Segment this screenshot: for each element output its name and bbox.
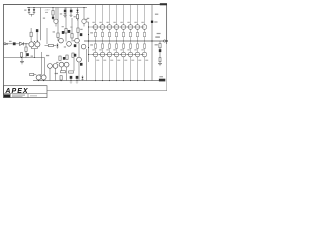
wire zobel top [159,41,161,44]
node rail j2 [88,47,89,48]
wire vertical x58 [57,8,59,34]
transistor Q26 output NPN [128,25,133,30]
node Q6 emitter [43,80,44,81]
label IN [9,41,12,42]
wire ground return [4,57,45,59]
wire Q32 collector [102,57,103,81]
wire Q34 collector [116,57,117,81]
label C3 [74,16,76,17]
resistor R6 [76,15,78,19]
wire R45 to out bus [123,37,124,42]
resistor R57 emitter [136,41,138,52]
wire Q22 collector [102,5,104,25]
transistor Q37 output PNP [135,52,140,57]
transistor Q4 [82,7,86,27]
wire R47 to out bus [137,37,138,42]
inductor L1 [159,52,161,63]
ground symbol GND2 [158,63,162,65]
label Q33 [106,49,108,50]
title cell right text [30,95,37,96]
wire R42 to out bus [102,37,103,42]
wire -V bus [33,80,160,82]
label Q8 [64,46,66,47]
wire diode join [28,7,34,17]
transistor Q6 [41,75,46,80]
wire R11 down [65,33,67,42]
transistor Q28 output NPN [142,25,147,30]
wire Q5 Q6 link [39,74,45,76]
title cell text line2 [12,95,23,98]
label Q9 [73,40,75,41]
title block vdiv2 [27,94,29,98]
resistor R16 [66,55,68,59]
resistor R11 [65,29,67,34]
transistor Q13 [59,62,64,67]
diode D6 [82,76,84,81]
title cell text line1 [12,94,25,97]
wire Q27 emitter [137,29,139,32]
capacitor C7 [68,30,71,33]
wire Q23 emitter [109,29,111,32]
wire drv down x74 [73,58,75,71]
title block vdiv1 [10,94,12,98]
transistor Q21 output NPN [93,25,98,30]
transistor Q12 [53,64,58,69]
label Q32 [99,49,101,50]
resistor R12 [71,18,73,42]
wire Q21 emitter [95,29,97,32]
wire Q38 collector [144,57,145,81]
label Q26 [127,22,129,23]
label -55V [55,73,58,74]
border frame left [3,4,5,98]
resistor R14 horizontal [45,44,57,46]
label part number col 8 [145,60,148,61]
label F1 [154,21,157,22]
label C7 [70,27,72,28]
wire V1 vertical [40,8,42,41]
wire feedback vertical 2 [44,58,46,75]
wire Q26 collector [130,5,132,25]
wire feedback vertical 1 [41,52,43,75]
capacitor C1b symbol [20,42,24,45]
wire drv down x50 [49,68,51,80]
revision block [160,3,167,5]
border frame right [166,4,168,91]
wire R3 to Q3 [52,15,54,20]
label part number col 5 [124,60,127,61]
wire Q28 collector [144,5,146,25]
wire drv down x79 [78,43,80,81]
transistor Q9 [75,38,80,43]
capacitor C13 [74,54,77,57]
transistor Q1 [29,42,34,47]
resistor R44 emitter [115,32,117,36]
resistor R53 emitter [108,41,110,52]
label bias top [84,19,87,20]
label part number col 7 [138,60,141,61]
wire base bus bottom bank [89,54,145,56]
transistor Q14 [64,62,69,67]
wire drv down x61 [61,67,63,71]
border frame bottom [47,90,167,92]
resistor R47 emitter [136,32,138,36]
wire Q22 emitter [102,29,104,32]
resistor R54 emitter [115,41,117,52]
label Q37 [134,49,136,50]
wire Q31 collector [95,57,96,81]
node Q5 emitter [38,80,39,81]
wire drop R3 [53,7,54,11]
diode D2 [33,8,35,15]
wire vertical x47 [46,28,48,44]
wire Q37 collector [137,57,138,81]
transistor Q5 [36,75,41,80]
title cell model [4,94,10,97]
diode D1 [28,8,30,15]
capacitor C11 [76,76,79,81]
transistor Q23 output NPN [107,25,112,30]
capacitor C10 [70,76,73,81]
wire R6 down [77,19,79,21]
label Q34 [113,49,115,50]
label part number col 6 [131,60,134,61]
resistor R45 emitter [122,32,124,36]
resistor R41 emitter [94,32,96,36]
ground hatch under bus 1 [70,82,72,83]
resistor R4 Q1 collector [30,28,32,42]
capacitor C6 [62,31,65,34]
wire vertical x66 [65,8,67,29]
resistor R43 emitter [108,32,110,36]
label Q36 [127,49,129,50]
label bias mid [90,32,93,33]
wire Q24 collector [116,5,118,25]
label Q35 [120,49,122,50]
wire Q35 collector [123,57,124,81]
label R7 [31,56,33,57]
wire Q33 collector [109,57,110,81]
resistor R55 emitter [122,41,124,52]
transistor Q27 output NPN [135,25,140,30]
label D1 D2 [24,10,26,11]
resistor R46 emitter [129,32,131,36]
wire Q25 emitter [123,29,125,32]
transistor Q33 output PNP [107,52,112,57]
capacitor C12 [63,57,65,60]
label R5 [60,13,62,14]
label R16 [46,55,49,56]
ground symbol GND1 [20,58,24,64]
title block divider [4,93,48,95]
resistor R18 horizontal [61,71,66,73]
label V right [155,14,158,15]
wire +V feed column [151,5,152,81]
capacitor C2 [63,8,66,18]
node rail j1 [88,34,89,35]
label Q27 [134,22,136,23]
label Q24 [113,22,115,23]
resistor R52 emitter [101,41,103,52]
label OUT [155,36,160,37]
border frame top [3,4,167,6]
label R10 [53,31,55,32]
capacitor C3 [70,8,73,17]
wire Q28 emitter [144,29,146,32]
transistor Q11 [48,64,53,69]
capacitor C2a [52,17,54,19]
transistor Q3 [53,8,58,27]
transistor Q22 output NPN [100,25,105,30]
label V right2 [157,33,161,34]
capacitor C8 [80,33,83,36]
label Q4 [87,18,89,19]
label part number col 1 [96,60,99,61]
label Q28 [141,22,143,23]
resistor R30 [60,76,62,82]
resistor R3 [52,11,54,16]
wire drv down x55 [55,68,57,80]
capacitor C14 [80,63,83,66]
wire drv down x66 [66,67,68,81]
capacitor C5 [26,53,29,56]
label Q25 [120,22,122,23]
diode D4 [57,43,59,48]
wire +V front-end bus [27,7,87,9]
transistor Q15 driver [77,57,82,62]
transistor Q10 [81,44,86,49]
fuse F1 [151,21,153,23]
resistor R56 emitter [129,41,131,52]
capacitor C9 [74,44,77,47]
diode D3 [76,8,78,15]
transistor Q25 output NPN [121,25,126,30]
transistor Q24 output NPN [114,25,119,30]
transistor Q31 output PNP [93,52,98,57]
resistor R42 emitter [101,32,103,36]
wire R10 down [57,38,59,42]
resistor R51 emitter [94,41,96,52]
svg-text:+55V: +55V [44,9,50,11]
svg-text:APEX: APEX [4,88,29,95]
label R zobel [155,44,158,45]
node Q1 Q2 bases [34,40,38,42]
ground hatch under bus 2 [76,82,78,83]
resistor R48 emitter [143,32,145,36]
resistor R60 zobel [159,44,161,48]
wire Q23 collector [109,5,111,25]
label Q31 [92,49,94,50]
wire zobel mid [159,48,161,49]
input connector J1 [4,43,13,45]
terminal -55V [159,76,165,81]
resistor R17 [72,53,74,57]
label Q23 [106,22,108,23]
wire Q27 collector [137,5,139,25]
resistor R58 emitter [143,41,145,52]
capacitor C4 Q2 collector [36,29,38,42]
label Q21 [92,22,94,23]
wire output bus [84,40,163,42]
resistor R1 to ground [25,44,27,58]
label R11 [62,26,64,27]
label R13 [80,29,82,30]
transistor Q2 [35,42,40,47]
wire Q25 collector [123,5,125,25]
capacitor C1 input [13,42,16,45]
resistor R13 [77,19,79,39]
wire R46 to out bus [130,37,131,42]
transistor Q7 [59,38,64,43]
transistor Q38 output PNP [142,52,147,57]
resistor R15 [59,56,61,60]
label Q22 [99,22,101,23]
label part number col 2 [103,60,106,61]
wire Q21 collector [95,5,97,25]
resistor R8 horizontal [30,73,37,75]
transistor Q36 output PNP [128,52,133,57]
label fuse rating [45,11,48,14]
output connector J2 [164,40,168,42]
label Q13 [56,62,58,63]
wire Q36 collector [130,57,131,81]
resistor R19 horizontal [69,71,74,73]
label Q38 [141,49,143,50]
wire R48 to out bus [144,37,145,42]
wire C1 to R2 [16,43,20,45]
wire R41 to out bus [95,37,96,42]
transistor Q8 [67,42,72,47]
transistor Q34 output PNP [114,52,119,57]
wire drv down x86 [86,49,88,81]
transistor Q35 output PNP [121,52,126,57]
capacitor C20 zobel [159,49,162,52]
wire Q26 emitter [130,29,132,32]
wire R44 to out bus [116,37,117,42]
transistor Q32 output PNP [100,52,105,57]
label bias low [90,44,93,45]
wire base bus top bank [89,26,145,28]
resistor R10 [57,33,59,38]
label part number col 3 [110,60,113,61]
label R2 [43,18,45,19]
resistor R7 tail [20,53,22,58]
wire Q24 emitter [116,29,118,32]
wire to Q1 base [24,43,29,44]
wire diff tail [31,47,37,58]
title block box [4,86,48,98]
label part number col 4 [117,60,120,61]
wire base drive rail [86,22,89,62]
wire R43 to out bus [109,37,110,42]
